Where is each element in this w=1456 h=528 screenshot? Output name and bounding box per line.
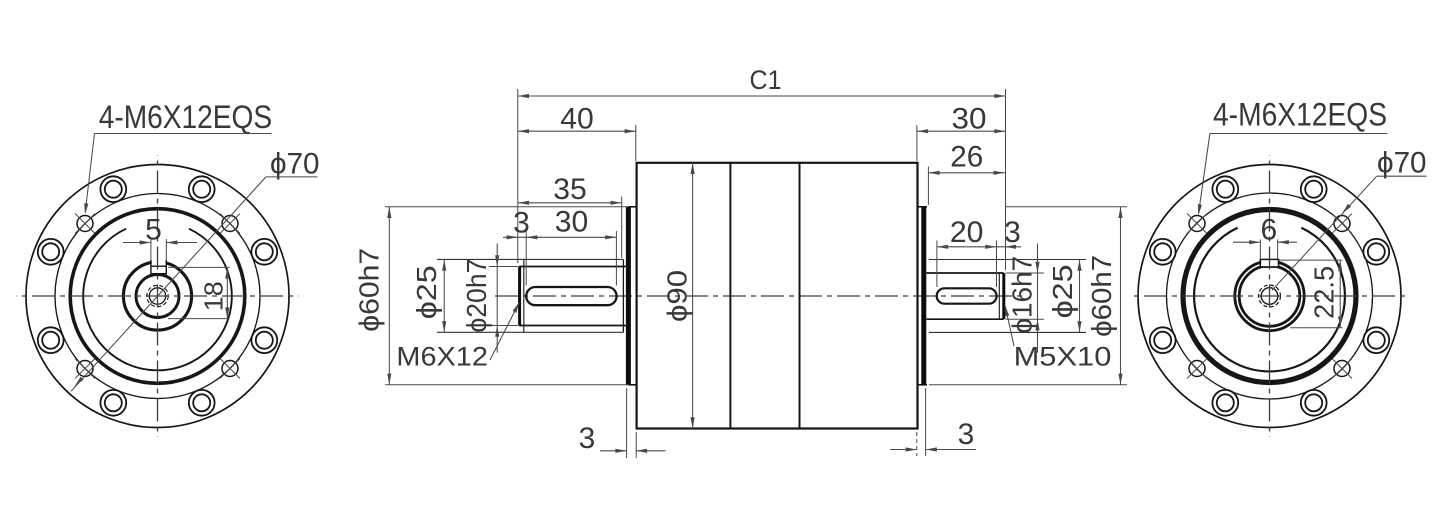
svg-text:4-M6X12EQS: 4-M6X12EQS (99, 99, 273, 135)
dimension 35 (518, 202, 622, 204)
left shaft keyway slot (526, 287, 616, 305)
left view tapped hole inner circle (149, 288, 165, 304)
left view keyway notch (150, 260, 152, 274)
right view horizontal centerline (1130, 295, 1409, 297)
dimension phi16h7 extension lines (1006, 272, 1045, 274)
dimension 3 bottom right (890, 449, 917, 451)
svg-text:ϕ25: ϕ25 (1047, 264, 1078, 318)
right view bore circle phi20 (1239, 266, 1300, 327)
gearbox body rectangle phi90 (637, 163, 918, 429)
svg-text:22.5: 22.5 (1309, 266, 1340, 319)
dimension C1 extension line right (1005, 89, 1007, 270)
right view keyway width dimension 6 (1233, 241, 1260, 243)
dimension 3 bottom left extension lines (626, 388, 628, 458)
dimension 26 (928, 172, 1004, 174)
left view shaft boss circle phi25 (123, 262, 191, 330)
svg-text:C1: C1 (750, 65, 782, 95)
right hub spigot bottom edge (918, 384, 928, 386)
right shaft phi16h7 top (926, 272, 1003, 274)
left shaft end face (bold) (518, 267, 521, 326)
left view pilot circle (thick) (70, 209, 245, 384)
dimension phi25 right (1079, 260, 1081, 333)
right view phi70 leader diagonal (1272, 176, 1377, 290)
dimension phi20h7 left extension lines (489, 266, 518, 268)
dimension phi20h7 left (496, 244, 498, 353)
left view keyway width dimension 5 (123, 242, 151, 244)
dimension 30 left slot length (526, 235, 537, 239)
svg-text:3: 3 (1004, 216, 1021, 249)
body internal joint line 1 (729, 163, 731, 429)
svg-text:18: 18 (199, 281, 229, 311)
svg-text:6: 6 (1261, 214, 1278, 247)
right view pilot circle (thick) (1183, 210, 1356, 383)
left shaft phi20h7 top (519, 266, 627, 268)
right view inner face circle (gap at top) (1194, 228, 1345, 372)
left view keyway white gap (152, 257, 166, 266)
svg-text:35: 35 (553, 173, 587, 206)
right shaft chamfer line (998, 273, 1000, 319)
right view tapped hole outer circle (dashed) (1259, 285, 1281, 307)
left phi25 section left edge (523, 259, 525, 332)
svg-text:5: 5 (145, 214, 162, 247)
left view label leader to upper-left M6 hole (85, 134, 94, 212)
right view vertical centerline (1269, 155, 1271, 437)
left view label leader underline (95, 133, 272, 135)
dimension phi16h7 (1037, 244, 1039, 353)
left hub spigot top edge (628, 206, 636, 208)
svg-text:4-M6X12EQS: 4-M6X12EQS (1213, 97, 1387, 133)
right view label leader underline (1210, 133, 1388, 135)
svg-text:30: 30 (555, 206, 589, 239)
dimension phi25 left (443, 259, 445, 332)
right phi25 hub bottom line (929, 331, 1086, 333)
dimension C1 (518, 95, 1006, 97)
left view vertical centerline (157, 155, 159, 437)
left view phi70 leader diagonal (71, 177, 266, 391)
svg-text:ϕ70: ϕ70 (270, 148, 320, 181)
left view horizontal centerline (17, 295, 299, 297)
left hub spigot bottom edge (628, 384, 636, 386)
dimension 30 top right extension line (916, 125, 918, 161)
right view boss circle (1235, 261, 1304, 330)
svg-text:ϕ70: ϕ70 (1377, 147, 1427, 180)
dimension 3 bottom right extension lines (916, 432, 918, 456)
left view 8 counterbored holes (251, 239, 277, 265)
right shaft phi16h7 bottom (926, 318, 1003, 320)
left view phi70 leader underline (266, 176, 318, 178)
svg-text:ϕ25: ϕ25 (411, 265, 442, 319)
svg-text:3: 3 (579, 422, 596, 455)
dimension 40 extension line (635, 125, 637, 161)
left flange view outer circle (phi90 flange) (26, 165, 289, 428)
left view bolt circle phi70 (thin) (55, 194, 260, 399)
right view phi70 leader underline (1377, 175, 1427, 177)
dimension phi60h7 left (388, 207, 390, 385)
left view inner face circle (gap at top) (83, 229, 232, 371)
right view keyway white gap (1261, 258, 1278, 267)
left hub end face (bold) (626, 207, 631, 385)
right view bolt circle phi70 (thin) (1167, 193, 1373, 399)
svg-text:M5X10: M5X10 (1014, 341, 1112, 371)
left shaft phi20h7 bottom (519, 325, 627, 327)
right view label leader to upper-left M6 hole (1199, 134, 1210, 214)
svg-text:ϕ20h7: ϕ20h7 (461, 259, 492, 333)
dimension 26 extension line (927, 167, 929, 206)
svg-text:3: 3 (958, 418, 975, 451)
right flange view outer circle (1138, 165, 1401, 428)
right view 4 M6 tapped holes with center ticks (1334, 216, 1350, 232)
svg-text:ϕ60h7: ϕ60h7 (1086, 255, 1117, 337)
left phi25 section bottom line (437, 331, 623, 333)
svg-text:M6X12: M6X12 (396, 341, 488, 371)
svg-text:20: 20 (950, 216, 984, 249)
right view dimension 22.5 (1279, 259, 1343, 261)
svg-text:30: 30 (952, 103, 987, 136)
right hub end face (bold) (921, 207, 926, 385)
body internal joint line 2 (799, 163, 801, 429)
dimension 3 left (tail) (503, 236, 616, 238)
svg-text:ϕ16h7: ϕ16h7 (1007, 256, 1038, 334)
svg-text:40: 40 (560, 103, 594, 136)
right shaft end face (bold) (1002, 273, 1005, 319)
dimension phi60h7 left extension lines (385, 206, 628, 208)
dimension phi60h7 right extension lines (1006, 206, 1127, 208)
right shaft keyway slot (937, 288, 997, 303)
dimension 3 bottom left (600, 450, 627, 452)
dimension 3 right (tail) (997, 246, 1022, 248)
svg-text:ϕ90: ϕ90 (662, 270, 693, 322)
dimension 35 extension line (621, 197, 623, 259)
dimension phi90 (692, 163, 694, 429)
svg-text:3: 3 (513, 207, 530, 240)
middle view horizontal centerline (495, 295, 1022, 297)
right phi25 hub top line (929, 259, 1086, 261)
svg-text:26: 26 (950, 141, 983, 174)
left view tapped hole outer circle (dashed) (147, 285, 168, 306)
right view keyway notch rectangle (1260, 259, 1278, 267)
dimension 30 top right (917, 130, 1006, 132)
right hub spigot top edge (918, 206, 928, 208)
dimension phi60h7 right (1120, 207, 1122, 385)
left phi25 section right edge (622, 259, 624, 332)
left view dimension 18 (168, 266, 230, 268)
svg-text:ϕ60h7: ϕ60h7 (354, 248, 385, 332)
left phi25 section top line (437, 258, 623, 260)
left view bore circle phi15 (thick) (136, 275, 179, 318)
dimension C1 extension line left (517, 89, 519, 263)
dimension 40 (518, 130, 636, 132)
left view 4 M6 tapped holes with center ticks (222, 216, 238, 232)
dimension 20 right slot length (936, 241, 938, 288)
right view 8 counterbored holes (1363, 239, 1389, 265)
right view tapped hole inner circle (1261, 288, 1278, 305)
